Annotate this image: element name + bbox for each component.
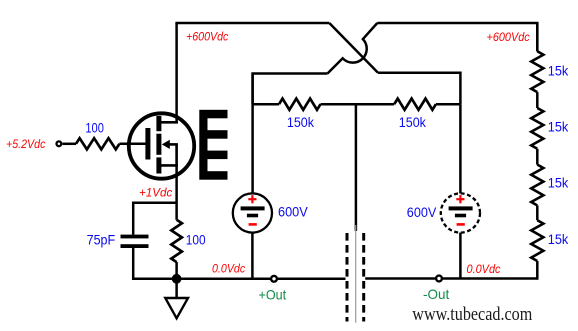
- svg-text:150k: 150k: [399, 115, 426, 130]
- ground: [165, 279, 188, 319]
- node input terminal: [57, 141, 62, 146]
- svg-text:+600Vdc: +600Vdc: [186, 29, 228, 43]
- node +Out terminal: [271, 276, 277, 282]
- svg-text:15k: 15k: [548, 64, 569, 79]
- label +600Vdc right: [487, 30, 530, 44]
- transistor Q1 gate bar: [145, 128, 150, 160]
- svg-text:-Out: -Out: [423, 286, 449, 302]
- resistor 15k #1: [531, 51, 543, 92]
- barrier center line gray: [355, 225, 357, 323]
- svg-text:+1Vdc: +1Vdc: [139, 185, 172, 199]
- barrier dashed line left: [346, 233, 349, 322]
- node ground junction dot: [172, 274, 182, 284]
- wire input terminal to resistor: [63, 143, 77, 146]
- transistor Q1 drain stub: [161, 121, 178, 124]
- wire diagonal down (left top rail to right inner rail): [329, 23, 378, 73]
- wire resistor 100 to ground node: [175, 262, 178, 279]
- resistor 100 (grid stopper): [76, 138, 119, 149]
- resistor 150k left: [279, 99, 321, 110]
- label +Out: [259, 286, 287, 302]
- svg-text:0.0Vdc: 0.0Vdc: [467, 262, 501, 276]
- wire battery B2 to bottom rail: [459, 233, 462, 279]
- wire top rail right (+600Vdc): [377, 23, 537, 52]
- wire center tap down: [355, 104, 358, 231]
- svg-text:0.0Vdc: 0.0Vdc: [212, 261, 245, 275]
- svg-text:75pF: 75pF: [87, 232, 116, 247]
- wire 150k rail right: [436, 103, 461, 106]
- battery B1 600V: [233, 193, 272, 232]
- wire capacitor bottom branch: [133, 248, 176, 279]
- label 0.0Vdc left: [212, 261, 245, 275]
- transistor Q1 MOSFET circle: [129, 113, 194, 178]
- wire inner top rail right segment: [378, 73, 460, 105]
- svg-text:600V: 600V: [407, 205, 437, 220]
- label +1Vdc: [139, 185, 172, 199]
- wire 150k rail middle: [321, 103, 395, 106]
- label 600V right: [407, 205, 437, 220]
- resistor 150k right: [394, 99, 436, 110]
- svg-text:+600Vdc: +600Vdc: [487, 30, 530, 44]
- transistor Q1 body arrow: [162, 140, 178, 166]
- label 75pF: [87, 232, 116, 247]
- wire inner left rail down to battery: [251, 74, 254, 194]
- label -Out: [423, 286, 449, 302]
- wire top rail left (+600Vdc): [175, 22, 329, 25]
- wire capacitor top branch: [133, 203, 176, 235]
- svg-text:600V: 600V: [278, 204, 308, 219]
- resistor 15k #3: [531, 165, 543, 206]
- heatsink: [199, 110, 227, 180]
- wire right rail seg3: [536, 149, 539, 165]
- label 150k right: [399, 115, 426, 130]
- svg-text:150k: 150k: [287, 115, 314, 130]
- transistor Q1 channel bar segments: [156, 116, 161, 174]
- wire right rail top segment: [536, 23, 539, 51]
- wire right rail seg2: [536, 92, 539, 108]
- svg-text:15k: 15k: [548, 119, 569, 134]
- svg-text:15k: 15k: [548, 176, 569, 191]
- label 0.0Vdc right: [467, 262, 501, 276]
- label +600Vdc left: [186, 29, 228, 43]
- wire right rail seg4: [536, 205, 539, 220]
- barrier dashed line right: [362, 233, 365, 322]
- label 15k #2: [548, 119, 569, 134]
- transistor Q1 source stub: [161, 164, 178, 167]
- wire inner right rail down to battery B2: [459, 104, 462, 194]
- wire drain to top rail: [175, 23, 178, 122]
- wire inner top rail left segment: [253, 74, 328, 105]
- capacitor C1 75pF: [121, 235, 149, 248]
- svg-text:+Out: +Out: [259, 286, 287, 302]
- label www.tubecad.com: [412, 304, 532, 325]
- svg-text:100: 100: [186, 232, 206, 247]
- label 150k left: [287, 115, 314, 130]
- wire 150k rail left: [253, 103, 279, 106]
- node -Out terminal: [436, 276, 442, 282]
- wire resistor to gate: [119, 143, 145, 146]
- wire battery B1 to bottom rail: [251, 233, 254, 279]
- battery B2 600V (dashed): [441, 193, 480, 232]
- label +5.2Vdc: [6, 137, 45, 151]
- svg-text:www.tubecad.com: www.tubecad.com: [412, 304, 532, 325]
- wire diagonal up with hop (inner left rail to right top rail): [328, 23, 378, 74]
- wire bottom rail left: [177, 278, 346, 281]
- svg-text:15k: 15k: [548, 232, 569, 247]
- label 15k #4: [548, 232, 569, 247]
- resistor 15k #2: [531, 108, 543, 149]
- wire bottom rail right: [365, 277, 537, 280]
- label 100 (source): [186, 232, 206, 247]
- label 15k #1: [548, 64, 569, 79]
- wire right rail bottom segment: [536, 261, 539, 280]
- label 100 (grid stopper): [85, 121, 104, 136]
- label 600V left: [278, 204, 308, 219]
- label 15k #3: [548, 176, 569, 191]
- svg-text:+5.2Vdc: +5.2Vdc: [6, 137, 45, 151]
- resistor 100 (source): [171, 220, 182, 262]
- svg-text:100: 100: [85, 121, 104, 136]
- wire source down to +1Vdc node: [175, 165, 178, 219]
- resistor 15k #4: [531, 220, 543, 261]
